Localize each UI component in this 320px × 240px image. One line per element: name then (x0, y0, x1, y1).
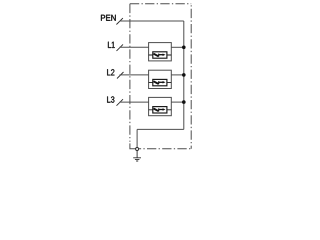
surge arrester F1 flash arrow (154, 54, 159, 57)
ground bars (133, 158, 141, 161)
wire L2 to arrester (120, 74, 149, 76)
surge arrester F2 outer box (149, 70, 172, 88)
earth terminal circle (136, 148, 139, 151)
junction dot L1/bus (182, 46, 186, 50)
ground stem (136, 151, 138, 158)
wire equipotential bus vertical (183, 21, 185, 129)
surge arrester F2 inner element box (153, 79, 167, 85)
wire bottom horizontal to earth (137, 128, 184, 130)
L3 conductor slash (117, 99, 124, 106)
wire L1 arrester to bus (171, 46, 184, 48)
boundary of protected zone: top border (130, 3, 191, 5)
label PEN (101, 15, 116, 21)
boundary of protected zone: bottom border (139, 148, 191, 150)
boundary of protected zone: left border (129, 4, 131, 142)
surge arrester F2 flash arrow (154, 81, 159, 84)
surge arrester F3 element stubs (149, 109, 172, 111)
wire down to earth terminal (136, 129, 138, 147)
surge arrester F3 flash arrow (154, 109, 159, 112)
surge arrester F3 outer box (149, 97, 172, 115)
L1 conductor slash (117, 44, 124, 51)
L2 conductor slash (117, 72, 124, 79)
surge arrester F3 inner element box (153, 107, 167, 113)
junction dot L3/bus (182, 100, 186, 104)
PEN conductor slash (116, 18, 123, 24)
wire L3 to arrester (120, 101, 149, 103)
boundary of protected zone: right border (190, 4, 192, 149)
label L3 (107, 96, 114, 102)
wire L3 arrester to bus (171, 101, 184, 103)
wire L1 to arrester (120, 46, 149, 48)
wire L2 arrester to bus (171, 74, 184, 76)
surge arrester F1 outer box (149, 43, 172, 61)
junction dot L2/bus (182, 73, 186, 77)
surge arrester F1 element stubs (149, 54, 172, 56)
surge arrester F1 inner element box (153, 52, 167, 58)
surge arrester F2 element stubs (149, 82, 172, 84)
label L1 (108, 42, 115, 48)
wire PEN horizontal (120, 20, 184, 22)
boundary of protected zone: bottom-left corner into earth terminal (130, 143, 136, 148)
label L2 (107, 69, 114, 75)
